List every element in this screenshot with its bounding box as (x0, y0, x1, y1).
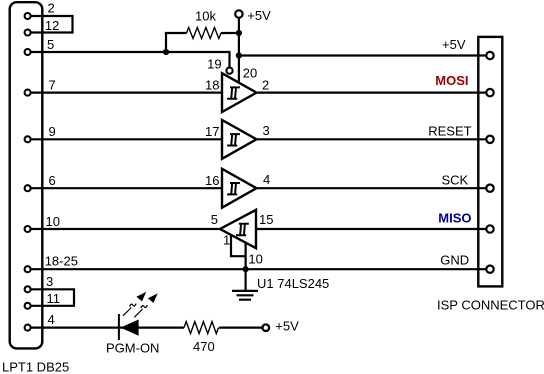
buffer U1B triangle (222, 120, 257, 159)
DB25 pin 4 (25, 325, 31, 331)
ISP pin MISO (486, 225, 493, 232)
connector J1 LPT1 DB25 body (10, 2, 43, 348)
wire SCK out (257, 187, 488, 189)
DB25 pin 12 (25, 30, 31, 36)
svg-text:+5V: +5V (275, 319, 299, 334)
buffer U1C direction symbol (227, 183, 240, 194)
buffer U1D triangle (reversed) (220, 210, 256, 248)
wire MISO in from ISP (256, 228, 487, 230)
svg-text:11: 11 (47, 291, 61, 306)
buffer U1D direction symbol (236, 224, 249, 235)
wire pin7 row (30, 91, 222, 93)
buffer U1A triangle (222, 73, 257, 112)
svg-text:U1 74LS245: U1 74LS245 (257, 276, 329, 291)
svg-text:LPT1 DB25: LPT1 DB25 (2, 359, 69, 374)
svg-text:19: 19 (207, 57, 221, 72)
ISP pin SCK (486, 185, 493, 192)
svg-text:7: 7 (49, 78, 56, 93)
buffer U1A direction symbol (227, 87, 240, 98)
LED emission arrow 1 (123, 304, 136, 316)
wire pin3 to pin11 loop (30, 289, 74, 306)
svg-text:SCK: SCK (441, 172, 468, 187)
wire GND row (30, 268, 487, 270)
svg-text:MISO: MISO (438, 211, 471, 226)
svg-text:10: 10 (46, 214, 60, 229)
ISP pin GND (486, 266, 493, 273)
svg-text:ISP CONNECTOR: ISP CONNECTOR (437, 298, 544, 313)
wire pin6 row (30, 187, 222, 189)
connector J2 ISP body (478, 37, 502, 287)
DB25 pin 5 (25, 49, 31, 55)
wire pin5 row to pin19 (30, 52, 230, 67)
buffer U1B direction symbol (227, 134, 240, 145)
svg-text:+5V: +5V (247, 8, 271, 23)
wire RESET out (257, 138, 488, 140)
wire U1 pin1 (231, 235, 246, 257)
svg-text:5: 5 (211, 212, 218, 227)
ISP pin MOSI (486, 89, 493, 96)
LED D1 anode triangle (120, 320, 138, 336)
svg-text:3: 3 (263, 123, 270, 138)
svg-text:1: 1 (223, 233, 230, 248)
svg-text:2: 2 (48, 1, 55, 16)
LED emission arrow 2 (134, 305, 147, 317)
svg-text:16: 16 (205, 173, 219, 188)
wire +5V stem to pin20 (238, 18, 240, 83)
wire 470 to +5V terminal (219, 327, 262, 329)
svg-text:18-25: 18-25 (45, 254, 78, 269)
junction +5V row (236, 52, 242, 58)
wire pin10 row MISO left (30, 228, 220, 230)
svg-text:10k: 10k (195, 8, 216, 23)
wire +5V row to ISP (239, 54, 487, 56)
DB25 pin 11 (25, 303, 31, 309)
junction 10k/+5V stem (236, 30, 242, 36)
svg-text:RESET: RESET (428, 124, 471, 139)
DB25 pin 9 (25, 136, 31, 142)
wire 10k left leg (166, 33, 187, 52)
svg-text:MOSI: MOSI (435, 73, 468, 88)
svg-text:12: 12 (45, 18, 59, 33)
+5V terminal bottom (263, 324, 270, 331)
svg-text:+5V: +5V (442, 37, 466, 52)
svg-text:18: 18 (205, 78, 219, 93)
svg-text:3: 3 (46, 274, 53, 289)
svg-text:PGM-ON: PGM-ON (106, 341, 159, 356)
svg-text:470: 470 (193, 339, 215, 354)
wire MOSI out (257, 91, 488, 93)
DB25 pin 3 (25, 286, 31, 292)
junction GND/pin10 (243, 266, 249, 272)
LED D1 cathode bar (118, 314, 120, 340)
DB25 pin 10 (25, 226, 31, 232)
DB25 pin 6 (25, 185, 31, 191)
svg-text:2: 2 (262, 78, 269, 93)
wire 10k right leg (221, 32, 239, 34)
ISP pin RESET (486, 136, 493, 143)
svg-text:15: 15 (259, 212, 273, 227)
svg-text:9: 9 (49, 124, 56, 139)
buffer U1C triangle (222, 169, 257, 208)
svg-text:20: 20 (243, 65, 257, 80)
svg-text:5: 5 (47, 37, 54, 52)
resistor R1 10k (187, 28, 222, 39)
wire pin4 row to LED (30, 327, 184, 329)
DB25 pin 2 (25, 13, 31, 19)
svg-text:GND: GND (440, 252, 469, 267)
+5V terminal top (235, 10, 242, 17)
svg-text:6: 6 (49, 173, 56, 188)
DB25 pin 18-25 (25, 266, 31, 272)
svg-text:10: 10 (248, 251, 262, 266)
DB25 pin 7 (25, 90, 31, 96)
svg-text:4: 4 (48, 312, 55, 327)
resistor R2 470 (184, 322, 219, 334)
wire pin9 row (30, 138, 222, 140)
svg-text:4: 4 (263, 172, 270, 187)
ISP pin +5V (486, 52, 493, 59)
svg-text:17: 17 (205, 124, 219, 139)
ground symbol (232, 291, 258, 300)
wire pin2 to pin12 loop (30, 16, 73, 33)
U1A pin19 enable bubble (226, 68, 232, 74)
junction pin5/10k (163, 49, 169, 55)
wire U1 pin10 to ground (245, 242, 247, 290)
